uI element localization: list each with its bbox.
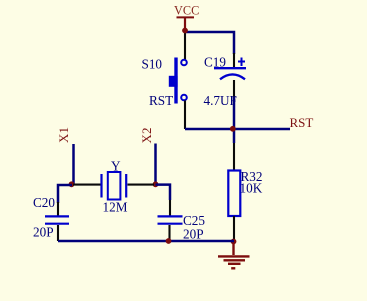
node X2 junction <box>153 181 159 187</box>
wire C19 bottom to RST junction <box>233 97 236 143</box>
wire X2 drop <box>154 144 157 185</box>
svg-text:X2: X2 <box>139 128 154 144</box>
power VCC <box>174 3 199 30</box>
svg-text:20P: 20P <box>183 226 204 241</box>
capacitor C20 <box>45 202 69 241</box>
svg-text:4.7UF: 4.7UF <box>204 93 237 108</box>
wire bottom loop <box>58 240 234 243</box>
node ground junction <box>231 239 237 245</box>
capacitor C19 <box>214 53 246 98</box>
wire S10 bottom to RST net <box>184 101 186 130</box>
ground <box>218 242 250 268</box>
svg-text:X1: X1 <box>56 127 71 143</box>
svg-text:C19: C19 <box>204 54 226 69</box>
wire X1 drop <box>72 144 75 185</box>
node X1 junction <box>69 181 75 187</box>
svg-text:12M: 12M <box>103 199 128 214</box>
wire X1 junction to C20 <box>58 185 72 203</box>
switch S10 <box>169 58 187 104</box>
wire VCC to C19 top <box>185 32 234 54</box>
svg-text:RST: RST <box>290 115 314 130</box>
crystal Y <box>73 172 154 200</box>
wire VCC junction down to S10 <box>184 31 186 60</box>
svg-text:VCC: VCC <box>174 3 199 17</box>
svg-text:S10: S10 <box>142 57 163 72</box>
wire X2 junction to C25 <box>156 185 171 200</box>
node RST junction <box>230 126 236 132</box>
node VCC junction <box>182 28 188 34</box>
wire RST horizontal <box>185 128 290 131</box>
svg-text:10K: 10K <box>240 181 263 196</box>
capacitor C25 <box>158 200 183 241</box>
resistor R32 <box>228 143 240 242</box>
svg-text:RST: RST <box>149 93 173 108</box>
svg-text:Y: Y <box>111 159 121 174</box>
node C25 bottom junction <box>166 238 172 244</box>
svg-text:20P: 20P <box>33 225 54 240</box>
svg-text:C20: C20 <box>33 195 55 210</box>
